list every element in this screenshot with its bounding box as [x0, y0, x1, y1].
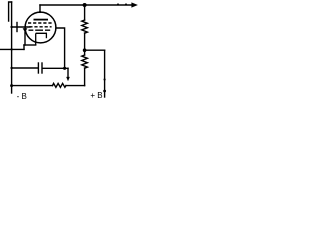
arrow output — [131, 2, 138, 7]
tube cathode right leg — [45, 33, 47, 38]
junction dot plate-circle — [39, 11, 41, 13]
wire R2 top lead — [84, 50, 86, 55]
tube cathode exit lead — [35, 33, 37, 45]
tube grid row 1 — [28, 22, 53, 24]
wire bottom rail left — [12, 85, 53, 87]
wire capacitor C2 right lead — [43, 67, 68, 69]
capacitor C2 right plate — [41, 63, 43, 73]
junction dot bus-rail — [10, 84, 13, 87]
wire capacitor C2 left lead — [12, 67, 38, 69]
tube grid row 2 — [29, 26, 51, 28]
wire screen lead from tube — [56, 28, 65, 69]
resistor R1 plate load — [82, 20, 88, 33]
junction dot bus-grid — [10, 26, 12, 28]
tube V1 envelope — [25, 12, 56, 43]
capacitor C2 left plate — [37, 63, 39, 73]
svg-text:+ B: + B — [90, 91, 102, 100]
node grid arrow junction — [24, 32, 26, 45]
wire cathode corner down — [23, 45, 25, 49]
wire top-left stub — [9, 2, 12, 21]
tube grid row 3 — [29, 29, 51, 31]
wire +B lead down — [104, 50, 106, 97]
svg-text:- B: - B — [17, 92, 27, 101]
junction dot bus-return — [10, 48, 12, 50]
wire cathode return to left edge — [0, 48, 24, 50]
tube cathode bar — [36, 32, 47, 34]
wire cathode horizontal — [24, 44, 36, 46]
dot on top rail 1 — [117, 3, 119, 5]
wire R1 top lead — [84, 5, 86, 20]
grid contact triangle — [23, 28, 28, 32]
wire R2 bottom lead — [84, 68, 86, 86]
resistor R2 bleeder — [82, 55, 88, 68]
dot on top rail 2 — [125, 3, 127, 5]
capacitor C1 grid plate — [16, 23, 18, 32]
potentiometer R3 body — [53, 83, 67, 87]
dot on +B lead — [103, 90, 106, 93]
wire wiper arrow stem — [67, 68, 69, 77]
junction dot screen node — [83, 48, 87, 52]
junction dot bus-cap — [10, 67, 12, 69]
wire left bus — [11, 2, 13, 93]
dot on +B lead upper — [104, 78, 106, 80]
junction dot cap-screen — [63, 67, 66, 70]
wire bottom rail right — [66, 85, 85, 87]
wire screen branch horizontal — [85, 49, 105, 51]
wire grid lead — [12, 26, 30, 28]
wire plate lead up — [39, 5, 41, 12]
junction dot top rail — [83, 3, 87, 7]
tube plate bar — [34, 19, 49, 21]
wire top rail — [40, 4, 132, 6]
arrow potentiometer wiper — [66, 77, 70, 81]
wire R1 bottom lead — [84, 33, 86, 50]
